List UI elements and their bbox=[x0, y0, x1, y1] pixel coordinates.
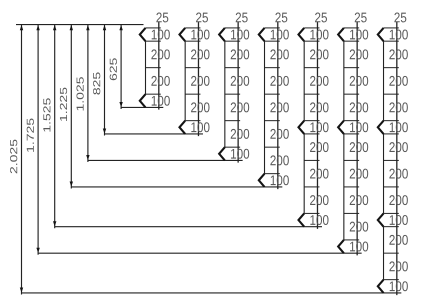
spacing chain 5 : tick mark at 525 bbox=[304, 93, 319, 95]
spacing chain 7 : segment label 200 bbox=[389, 76, 407, 86]
overall dimension 1.725 : arrowhead down bbox=[36, 248, 39, 253]
overall dimension 1.025 : arrowhead up bbox=[86, 25, 89, 30]
spacing chain 6 : tick mark at 525 bbox=[344, 93, 359, 95]
spacing chain 5 : segment label 200 bbox=[310, 49, 328, 59]
overall dimension 2.025 : vertical dimension line bbox=[21, 25, 23, 295]
spacing chain 7 : segment label 100 bbox=[390, 281, 408, 291]
spacing chain 2 : tick mark at 325 bbox=[185, 67, 200, 69]
overall dimension 625 : arrowhead down bbox=[119, 102, 122, 107]
overall dimension 1.225 : arrowhead down bbox=[70, 182, 73, 187]
spacing chain 6 : tick mark at 325 bbox=[344, 67, 359, 69]
spacing chain 1 : offset label 25 bbox=[156, 13, 168, 23]
spacing chain 4 : tick mark at 725 bbox=[265, 120, 280, 122]
spacing chain 6 : segment label 200 bbox=[350, 49, 368, 59]
spacing chain 3 : segment label 100 bbox=[231, 149, 249, 159]
spacing chain 5 : segment label 100 bbox=[310, 215, 328, 225]
spacing chain 6 : tick mark at 725 bbox=[344, 120, 359, 122]
spacing chain 7 : arrow chevron at segment 8 bbox=[378, 213, 384, 226]
overall dimension 1.225 : horizontal connector line bbox=[71, 186, 282, 188]
spacing chain 6 : arrow chevron at segment 0 bbox=[338, 28, 344, 41]
spacing chain 1 : segment label 200 bbox=[151, 76, 169, 86]
spacing chain 6 : segment label 200 bbox=[350, 142, 368, 152]
spacing chain 4 : offset label 25 bbox=[275, 13, 287, 23]
spacing chain 3 : segment label 200 bbox=[231, 129, 249, 139]
spacing chain 7 : segment label 200 bbox=[389, 261, 407, 271]
spacing chain 5 : segment label 100 bbox=[310, 122, 328, 132]
overall dimension 2.025 : horizontal connector line bbox=[22, 292, 402, 294]
spacing chain 5 : tick mark at 25 bbox=[304, 27, 319, 29]
overall dimension 625 : value label bbox=[110, 58, 117, 80]
overall dimension 1.725 : arrowhead up bbox=[36, 25, 39, 30]
spacing chain 4 : tick mark at 1125 bbox=[265, 173, 280, 175]
spacing chain 6 : segment label 200 bbox=[350, 169, 368, 179]
spacing chain 2 : offset label 25 bbox=[196, 13, 208, 23]
spacing chain 6 : segment label 100 bbox=[350, 30, 368, 40]
spacing chain 7 : tick mark at 25 bbox=[384, 27, 399, 29]
spacing chain 4 (total 1225) : extension line bbox=[277, 22, 279, 189]
spacing chain 4 : segment label 200 bbox=[270, 155, 288, 165]
spacing chain 3 : tick mark at 25 bbox=[225, 27, 240, 29]
spacing chain 1 (total 625) : extension line bbox=[158, 22, 160, 110]
spacing chain 7 : segment label 200 bbox=[389, 235, 407, 245]
spacing chain 4 : tick mark at 925 bbox=[265, 146, 280, 148]
spacing chain 6 : segment label 200 bbox=[350, 222, 368, 232]
spacing chain 2 : segment label 200 bbox=[191, 102, 209, 112]
spacing chain 7 : arrow chevron at segment 11 bbox=[378, 280, 384, 293]
overall dimension 1.525 : vertical dimension line bbox=[54, 25, 56, 229]
spacing chain 2 : segment label 100 bbox=[191, 122, 209, 132]
spacing chain 1 : tick mark at 525 bbox=[146, 93, 161, 95]
overall dimension 1.025 : value label bbox=[76, 77, 83, 110]
spacing chain 4 : dimension line (thin segments) bbox=[264, 41, 266, 174]
spacing chain 3 (total 1025) : extension line bbox=[237, 22, 239, 163]
spacing chain 5 : segment label 200 bbox=[310, 102, 328, 112]
spacing chain 3 : arrow chevron at segment 5 bbox=[219, 147, 225, 160]
overall dimension 825 : value label bbox=[93, 72, 100, 94]
spacing chain 3 : dimension line (thin segments) bbox=[224, 41, 226, 147]
spacing chain 3 : segment label 200 bbox=[231, 76, 249, 86]
spacing chain 5 : tick mark at 725 bbox=[304, 120, 319, 122]
spacing chain 5 : offset label 25 bbox=[315, 13, 327, 23]
spacing chain 6 : arrow chevron at segment 9 bbox=[338, 240, 344, 253]
spacing chain 6 : tick mark at 1425 bbox=[344, 212, 359, 214]
spacing chain 4 : arrow chevron at segment 0 bbox=[259, 28, 265, 41]
spacing chain 5 : tick mark at 825 bbox=[304, 133, 319, 135]
overall dimension 1.525 : value label bbox=[43, 98, 50, 131]
spacing chain 3 : tick mark at 925 bbox=[225, 146, 240, 148]
overall dimension 2.025 : arrowhead up bbox=[20, 25, 23, 30]
spacing chain 2 : tick mark at 725 bbox=[185, 120, 200, 122]
spacing chain 2 : arrow chevron at segment 0 bbox=[179, 28, 185, 41]
spacing chain 5 : arrow chevron at segment 8 bbox=[298, 213, 304, 226]
spacing chain 3 : tick mark at 725 bbox=[225, 120, 240, 122]
spacing chain 4 : segment label 200 bbox=[270, 129, 288, 139]
overall dimension 1.725 : horizontal connector line bbox=[38, 252, 362, 254]
overall dimension 825 : arrowhead down bbox=[103, 129, 106, 134]
spacing chain 4 : arrow chevron at segment 6 bbox=[259, 174, 265, 187]
spacing chain 6 : tick mark at 825 bbox=[344, 133, 359, 135]
spacing chain 1 : dimension line (thin segments) bbox=[145, 41, 147, 94]
overall dimension 1.225 : vertical dimension line bbox=[70, 25, 72, 189]
spacing chain 7 : arrow chevron at segment 0 bbox=[378, 28, 384, 41]
spacing chain 1 : tick mark at 325 bbox=[146, 67, 161, 69]
spacing chain 7 (total 2025) : extension line bbox=[396, 22, 398, 295]
spacing chain 6 : dimension line (thin segments) bbox=[343, 41, 345, 240]
overall dimension 1.725 : value label bbox=[27, 118, 34, 151]
spacing chain 6 : arrow chevron at segment 4 bbox=[338, 121, 344, 134]
overall dimension 1.025 : horizontal connector line bbox=[88, 159, 243, 161]
spacing chain 4 : segment label 100 bbox=[271, 30, 289, 40]
spacing chain 4 : tick mark at 25 bbox=[265, 27, 280, 29]
spacing chain 6 : tick mark at 1225 bbox=[344, 186, 359, 188]
spacing chain 5 (total 1525) : extension line bbox=[316, 22, 318, 229]
spacing chain 4 : segment label 200 bbox=[270, 76, 288, 86]
spacing chain 6 : tick mark at 1625 bbox=[344, 239, 359, 241]
spacing chain 5 : segment label 200 bbox=[310, 76, 328, 86]
spacing chain 5 : segment label 200 bbox=[310, 195, 328, 205]
spacing chain 3 : tick mark at 125 bbox=[225, 40, 240, 42]
spacing chain 6 : segment label 200 bbox=[350, 195, 368, 205]
spacing chain 2 : tick mark at 25 bbox=[185, 27, 200, 29]
spacing chain 3 : segment label 200 bbox=[231, 49, 249, 59]
spacing chain 7 : segment label 100 bbox=[390, 215, 408, 225]
spacing chain 3 : tick mark at 525 bbox=[225, 93, 240, 95]
spacing chain 1 : segment label 100 bbox=[152, 96, 170, 106]
overall dimension 625 : vertical dimension line bbox=[120, 25, 122, 109]
overall dimension 1.225 : value label bbox=[60, 88, 67, 121]
spacing chain 5 : tick mark at 1025 bbox=[304, 159, 319, 161]
spacing chain 5 : tick mark at 1425 bbox=[304, 212, 319, 214]
spacing chain 7 : tick mark at 1525 bbox=[384, 226, 399, 228]
spacing chain 7 : tick mark at 1225 bbox=[384, 186, 399, 188]
spacing chain 3 : arrow chevron at segment 0 bbox=[219, 28, 225, 41]
spacing chain 5 : segment label 200 bbox=[310, 169, 328, 179]
spacing chain 7 : segment label 200 bbox=[389, 49, 407, 59]
spacing chain 6 : segment label 200 bbox=[350, 102, 368, 112]
spacing chain 3 : offset label 25 bbox=[236, 13, 248, 23]
spacing chain 2 : segment label 200 bbox=[191, 49, 209, 59]
spacing chain 7 : tick mark at 1025 bbox=[384, 159, 399, 161]
spacing chain 5 : tick mark at 325 bbox=[304, 67, 319, 69]
overall dimension 825 : vertical dimension line bbox=[104, 25, 106, 136]
spacing chain 2 : segment label 200 bbox=[191, 76, 209, 86]
overall dimension 1.025 : arrowhead down bbox=[86, 155, 89, 160]
spacing chain 1 : segment label 100 bbox=[152, 30, 170, 40]
spacing chain 3 : tick mark at 325 bbox=[225, 67, 240, 69]
overall dimension 1.525 : arrowhead up bbox=[53, 25, 56, 30]
spacing chain 4 : tick mark at 125 bbox=[265, 40, 280, 42]
spacing chain 7 : dimension line (thin segments) bbox=[383, 41, 385, 280]
overall dimension 625 : arrowhead up bbox=[119, 25, 122, 30]
spacing chain 7 : tick mark at 725 bbox=[384, 120, 399, 122]
overall dimension 1.525 : horizontal connector line bbox=[55, 226, 322, 228]
spacing chain 4 : segment label 100 bbox=[271, 175, 289, 185]
datum line (top reference) bbox=[16, 24, 144, 26]
spacing chain 6 : tick mark at 125 bbox=[344, 40, 359, 42]
spacing chain 1 : arrow chevron at segment 0 bbox=[140, 28, 146, 41]
spacing chain 7 : tick mark at 825 bbox=[384, 133, 399, 135]
spacing chain 4 : tick mark at 525 bbox=[265, 93, 280, 95]
spacing chain 3 : segment label 100 bbox=[231, 30, 249, 40]
spacing chain 6 : segment label 200 bbox=[350, 76, 368, 86]
spacing chain 6 : segment label 100 bbox=[350, 242, 368, 252]
overall dimension 1.225 : arrowhead up bbox=[70, 25, 73, 30]
spacing chain 7 : tick mark at 1725 bbox=[384, 252, 399, 254]
overall dimension 625 : horizontal connector line bbox=[121, 106, 163, 108]
spacing chain 6 (total 1725) : extension line bbox=[356, 22, 358, 256]
overall dimension 825 : arrowhead up bbox=[103, 25, 106, 30]
spacing chain 1 : tick mark at 25 bbox=[146, 27, 161, 29]
overall dimension 2.025 : value label bbox=[10, 140, 17, 174]
spacing chain 2 : tick mark at 125 bbox=[185, 40, 200, 42]
overall dimension 2.025 : arrowhead down bbox=[20, 288, 23, 293]
spacing chain 7 : tick mark at 325 bbox=[384, 67, 399, 69]
spacing chain 7 : tick mark at 525 bbox=[384, 93, 399, 95]
spacing chain 7 : tick mark at 125 bbox=[384, 40, 399, 42]
spacing chain 4 : tick mark at 325 bbox=[265, 67, 280, 69]
overall dimension 825 : horizontal connector line bbox=[105, 133, 203, 135]
spacing chain 7 : offset label 25 bbox=[394, 13, 406, 23]
spacing chain 6 : offset label 25 bbox=[355, 13, 367, 23]
spacing chain 5 : arrow chevron at segment 0 bbox=[298, 28, 304, 41]
spacing chain 7 : segment label 200 bbox=[389, 142, 407, 152]
spacing chain 1 : arrow chevron at segment 3 bbox=[140, 94, 146, 107]
spacing chain 5 : segment label 100 bbox=[310, 30, 328, 40]
spacing chain 2 : segment label 100 bbox=[191, 30, 209, 40]
spacing chain 7 : segment label 200 bbox=[389, 169, 407, 179]
spacing chain 5 : arrow chevron at segment 4 bbox=[298, 121, 304, 134]
spacing chain 1 : segment label 200 bbox=[151, 49, 169, 59]
spacing chain 2 : arrow chevron at segment 4 bbox=[179, 121, 185, 134]
spacing chain 6 : tick mark at 1025 bbox=[344, 159, 359, 161]
spacing chain 1 : tick mark at 125 bbox=[146, 40, 161, 42]
spacing chain 5 : tick mark at 125 bbox=[304, 40, 319, 42]
overall dimension 1.725 : vertical dimension line bbox=[37, 25, 39, 255]
spacing chain 4 : segment label 200 bbox=[270, 102, 288, 112]
spacing chain 7 : segment label 200 bbox=[389, 195, 407, 205]
spacing chain 7 : segment label 200 bbox=[389, 102, 407, 112]
spacing chain 4 : segment label 200 bbox=[270, 49, 288, 59]
spacing chain 6 : segment label 100 bbox=[350, 122, 368, 132]
spacing chain 5 : dimension line (thin segments) bbox=[303, 41, 305, 213]
spacing chain 2 : dimension line (thin segments) bbox=[184, 41, 186, 121]
overall dimension 1.525 : arrowhead down bbox=[53, 221, 56, 226]
spacing chain 5 : tick mark at 1225 bbox=[304, 186, 319, 188]
spacing chain 7 : segment label 100 bbox=[390, 30, 408, 40]
spacing chain 7 : tick mark at 1925 bbox=[384, 279, 399, 281]
spacing chain 2 : tick mark at 525 bbox=[185, 93, 200, 95]
spacing chain 3 : segment label 200 bbox=[231, 102, 249, 112]
spacing chain 6 : tick mark at 25 bbox=[344, 27, 359, 29]
spacing chain 7 : arrow chevron at segment 4 bbox=[378, 121, 384, 134]
spacing chain 7 : tick mark at 1425 bbox=[384, 212, 399, 214]
overall dimension 1.025 : vertical dimension line bbox=[87, 25, 89, 162]
spacing chain 2 (total 825) : extension line bbox=[197, 22, 199, 136]
spacing chain 5 : segment label 200 bbox=[310, 142, 328, 152]
spacing chain 7 : segment label 100 bbox=[390, 122, 408, 132]
